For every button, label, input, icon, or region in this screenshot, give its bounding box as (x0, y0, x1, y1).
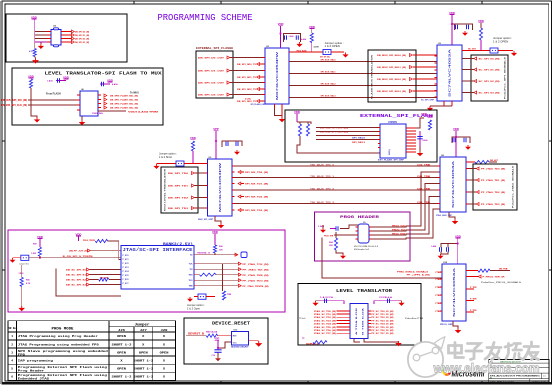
svg-text:www.elecfans.com: www.elecfans.com (433, 362, 540, 376)
svg-text:3: 3 (11, 351, 13, 354)
svg-text:DB_SPI_D3_OUT: DB_SPI_D3_OUT (198, 95, 225, 97)
wire (21, 286, 23, 306)
svg-text:A TDA ILDB: A TDA ILDB (355, 306, 358, 335)
jumper J5 (323, 50, 331, 55)
capacitor C61 C62 loop (441, 244, 458, 248)
svg-text:SPI_MX_TD3_(M): SPI_MX_TD3_(M) (245, 210, 268, 212)
svg-text:Embedded JTAG: Embedded JTAG (18, 376, 49, 380)
svg-text:P_TER: P_TER (470, 287, 477, 289)
capacitor C11 (56, 80, 66, 82)
svg-text:X: X (142, 335, 144, 338)
svg-text:DB_ICB_SPI_DO_(M): DB_ICB_SPI_DO_(M) (320, 128, 348, 130)
svg-text:SC_SPI_S3_(M): SC_SPI_S3_(M) (479, 93, 500, 95)
wire (13, 257, 21, 259)
resistor bottom (313, 341, 327, 344)
pins U10 right (194, 254, 197, 256)
IC U13 (350, 304, 368, 339)
wire U13 bottom (354, 339, 360, 342)
svg-text:PROG_GRP: PROG_GRP (440, 324, 454, 326)
ground (417, 151, 424, 156)
svg-text:PF_JTAG_TCK_(M): PF_JTAG_TCK_(M) (243, 263, 269, 266)
wire (91, 250, 122, 252)
svg-text:SPI_SEL1: SPI_SEL1 (352, 142, 366, 144)
wire (331, 51, 344, 53)
svg-text:DB_4K7: DB_4K7 (490, 159, 499, 162)
svg-text:JTAG Programming using Prog He: JTAG Programming using Prog Header (18, 334, 98, 338)
wire (222, 264, 224, 291)
svg-text:4-A04: 4-A04 (301, 38, 306, 41)
svg-text:SC74LVC4053A: SC74LVC4053A (453, 267, 456, 317)
svg-text:PF_JTAG_TD0_(M): PF_JTAG_TD0_(M) (481, 168, 505, 171)
wire (34, 42, 36, 49)
svg-text:4-A04: 4-A04 (112, 83, 118, 86)
wire (206, 296, 215, 298)
svg-text:SR No: SR No (8, 327, 16, 330)
svg-text:VDDI: VDDI (19, 273, 24, 275)
wire (217, 353, 219, 357)
wire (297, 122, 311, 124)
svg-text:DB_SC_SPI_S2: DB_SC_SPI_S2 (66, 280, 87, 282)
svg-text:PTB4: PTB4 (435, 302, 441, 305)
svg-text:Jumper option :: Jumper option : (159, 151, 177, 155)
wire (184, 163, 208, 165)
svg-text:DB_SPI_TD2: DB_SPI_TD2 (168, 198, 189, 200)
wire (469, 270, 479, 272)
svg-text:X: X (163, 367, 165, 370)
svg-text:JTAG_SC_TD1_(M): JTAG_SC_TD1_(M) (314, 313, 336, 316)
resistor R14 (191, 141, 194, 151)
svg-text:DB_SPI_SD3_TX: DB_SPI_SD3_TX (237, 101, 257, 103)
ground (438, 254, 444, 259)
watermark icon (408, 337, 445, 377)
svg-text:PF_JTAG_TRSTB_(M): PF_JTAG_TRSTB_(M) (243, 285, 269, 288)
svg-text:P_SC2: P_SC2 (123, 263, 129, 265)
wires U10 right + net labels (197, 263, 239, 265)
svg-text:DB_SPI3_FLASH_SEL_(M): DB_SPI3_FLASH_SEL_(M) (110, 107, 138, 110)
svg-text:2: 2 (11, 343, 13, 346)
IC U6 (80, 91, 98, 116)
svg-text:1-A04: 1-A04 (47, 80, 53, 83)
svg-text:SHORT 1-2: SHORT 1-2 (112, 375, 132, 378)
wire (28, 99, 77, 101)
svg-text:PF_JTAG_TD3_(M): PF_JTAG_TD3_(M) (481, 203, 505, 206)
wire (30, 88, 32, 105)
svg-text:IAP programming: IAP programming (18, 358, 53, 362)
pins U3 left (435, 55, 438, 57)
ground (427, 106, 433, 111)
svg-text:C01_TRB: C01_TRB (417, 176, 431, 178)
svg-text:6: 6 (11, 375, 13, 378)
svg-text:P_PROG_TER_0R: P_PROG_TER_0R (483, 277, 505, 279)
block box EXTERNAL_SPI_FLASH (285, 110, 437, 162)
connector box PolarFire_SPI_SIGNALS (471, 55, 508, 101)
resistor R21 (479, 28, 482, 40)
IC U8 (440, 157, 466, 212)
net label P_PROG (478, 275, 481, 278)
block box LEVEL TRANSLATOR-SPI FLASH TO MUX (12, 68, 163, 125)
connector box PolarFire_JTAG_SIGNALS (473, 164, 517, 210)
svg-text:PolarFire_PROG_SIGNALS: PolarFire_PROG_SIGNALS (481, 281, 522, 284)
wire (39, 256, 41, 258)
svg-text:MAX8211EUKT: MAX8211EUKT (231, 345, 249, 348)
resistor R5 (29, 79, 32, 88)
ground (218, 223, 225, 228)
svg-text:PROG_MODE: PROG_MODE (297, 50, 307, 52)
svg-text:DB_SPI_D2_(M): DB_SPI_D2_(M) (75, 39, 89, 41)
table PROG MODE jumpers (8, 321, 176, 380)
wire (218, 342, 232, 348)
capacitor C1 C2 loop (284, 34, 301, 43)
svg-text:JTAG_SC_TD4_(M): JTAG_SC_TD4_(M) (314, 323, 336, 326)
svg-text:4: 4 (11, 359, 13, 362)
svg-text:SC_SPI_S1_(M): SC_SPI_S1_(M) (479, 70, 500, 72)
ground (465, 145, 471, 150)
svg-text:LEVEL TRANSLATOR: LEVEL TRANSLATOR (336, 289, 392, 294)
title block (489, 359, 549, 383)
svg-text:OPEN: OPEN (117, 335, 126, 338)
wire U5 bottom (215, 216, 221, 223)
svg-text:PF_JTAG_TMS_(M): PF_JTAG_TMS_(M) (243, 274, 269, 277)
wire (249, 340, 259, 342)
IC U14 (442, 264, 466, 321)
resistor R71 (206, 334, 217, 337)
svg-text:10K: 10K (329, 245, 333, 247)
svg-text:VDDI2_5: VDDI2_5 (197, 253, 211, 255)
net labels U14 right stubs (466, 288, 474, 290)
testpoint TP1 (241, 252, 247, 258)
svg-text:PTB1: PTB1 (435, 279, 441, 281)
svg-text:MX74LVC4053PW: MX74LVC4053PW (219, 161, 222, 212)
svg-text:VDDI 4-A04 TRIM: VDDI 4-A04 TRIM (128, 110, 158, 113)
svg-text:DB_SPI_SD2_TX: DB_SPI_SD2_TX (237, 89, 257, 91)
ground (234, 150, 240, 155)
wire PROG header down-left (322, 238, 442, 279)
junction (280, 33, 282, 35)
pins U8 left (438, 165, 441, 167)
svg-text:OPEN: OPEN (160, 351, 169, 354)
svg-text:P_SC5: P_SC5 (123, 275, 129, 277)
resistor R61 (213, 245, 216, 253)
svg-text:PolarFire_JTAG_SIGNALS: PolarFire_JTAG_SIGNALS (512, 165, 515, 208)
block box DEVICE_RESET (184, 318, 268, 364)
svg-text:SPI_MX_TD1_(M): SPI_MX_TD1_(M) (245, 184, 268, 186)
IC U4 (51, 30, 61, 46)
wire (40, 42, 42, 44)
svg-text:1 & 2 OPEN: 1 & 2 OPEN (493, 40, 508, 44)
wire (214, 234, 216, 245)
svg-text:PTB5: PTB5 (435, 311, 441, 313)
svg-text:Prog Header: Prog Header (18, 368, 45, 372)
svg-text:DB_SC_SPI_S3: DB_SC_SPI_S3 (66, 285, 87, 287)
wire (498, 50, 513, 52)
pins U13 left (337, 310, 351, 312)
pins U5 right (232, 165, 235, 167)
svg-text:P_SC0: P_SC0 (123, 255, 129, 257)
pins U2 bottom (274, 104, 276, 108)
ground (455, 328, 462, 333)
svg-text:1 & 2 OPEN: 1 & 2 OPEN (325, 44, 340, 48)
svg-text:1.0: 1.0 (543, 375, 546, 377)
wire (457, 238, 459, 264)
svg-text:X: X (142, 343, 144, 346)
jumper J8 (198, 294, 206, 299)
svg-text:B TDB ILDA: B TDB ILDA (362, 306, 365, 335)
wire (28, 104, 77, 106)
pins U13 right (368, 310, 371, 312)
junction (451, 23, 453, 25)
resistor R41 (334, 238, 337, 250)
svg-text:DB_SPI_TD3: DB_SPI_TD3 (168, 208, 189, 210)
svg-text:P_TER: P_TER (470, 310, 477, 312)
wire (217, 341, 219, 350)
svg-text:DB_MUX_SPI_SEL0_(M): DB_MUX_SPI_SEL0_(M) (377, 55, 406, 57)
wire (157, 163, 177, 165)
pins U5 left (205, 163, 208, 165)
svg-text:PROG_TRB: PROG_TRB (324, 236, 333, 238)
svg-text:AT25DN: AT25DN (388, 121, 397, 124)
wire (214, 253, 216, 255)
pins U14 right (466, 270, 469, 272)
svg-text:DB_ICB_SPI_CLK_(M): DB_ICB_SPI_CLK_(M) (320, 132, 348, 134)
svg-text:SC74LVC4053A: SC74LVC4053A (449, 48, 452, 97)
resistor R31 R32 (298, 124, 301, 136)
ground (32, 58, 39, 64)
pins U14 left (440, 271, 443, 273)
svg-text:JTAG_SC_TD7_(M): JTAG_SC_TD7_(M) (314, 332, 336, 335)
wire (311, 28, 313, 33)
wires PROG HEADER to U8 (410, 172, 440, 226)
wires to flash IC (316, 127, 380, 129)
wire (489, 161, 497, 163)
svg-text:SC_SPI_S0_(M): SC_SPI_S0_(M) (479, 59, 500, 61)
svg-text:D_(M): D_(M) (245, 99, 251, 101)
pins U6 left (77, 94, 80, 96)
ground (153, 164, 159, 169)
svg-text:(M) PF_JUT_(M): (M) PF_JUT_(M) (69, 250, 88, 252)
svg-text:OPEN: OPEN (117, 367, 126, 370)
wire (336, 250, 343, 254)
pins U2 right (289, 51, 292, 53)
svg-text:4.7K: 4.7K (26, 282, 31, 285)
capacitor C52 (383, 300, 399, 302)
svg-text:DB_MUX_SPI_SEL2_(M): DB_MUX_SPI_SEL2_(M) (377, 79, 406, 81)
svg-text:X: X (120, 359, 122, 362)
block box PROG HEADER (315, 212, 411, 261)
svg-text:DB_SPI_D3_(M): DB_SPI_D3_(M) (75, 42, 89, 44)
wire vcc right (416, 118, 424, 128)
svg-text:PTB3: PTB3 (435, 295, 441, 297)
svg-text:P_SC1: P_SC1 (123, 259, 129, 261)
svg-text:MUX_SPI_GRP: MUX_SPI_GRP (198, 219, 214, 221)
svg-text:MUX LEVEL TRANSLATOR: MUX LEVEL TRANSLATOR (164, 168, 167, 211)
ground (462, 31, 468, 36)
svg-text:PF_SC_TD6_25_(M): PF_SC_TD6_25_(M) (371, 330, 393, 332)
svg-text:MX74LVC4053PW: MX74LVC4053PW (276, 50, 279, 100)
ground (340, 254, 346, 259)
svg-text:To MUX: To MUX (130, 92, 139, 95)
connector box MUX LEVEL TRANSLATOR (161, 167, 198, 213)
svg-text:P_SC6: P_SC6 (123, 279, 129, 281)
jumper J7 (21, 255, 29, 260)
watermark chinese text (449, 342, 539, 360)
wire (218, 335, 232, 337)
wire (78, 236, 80, 241)
IC U3 (437, 45, 462, 101)
svg-text:JTAG Programming using embedde: JTAG Programming using embedded FP5 (18, 342, 99, 346)
junction (455, 136, 457, 138)
ground (187, 297, 193, 302)
IC U15 (232, 332, 249, 346)
svg-text:P_SC3: P_SC3 (123, 267, 129, 269)
wire (296, 114, 298, 122)
ground (398, 301, 404, 306)
svg-text:PF_SC_TD7_25_(M): PF_SC_TD7_25_(M) (371, 333, 393, 335)
svg-text:C00_TRB: C00_TRB (417, 164, 431, 166)
svg-text:DEVICE_RESET: DEVICE_RESET (212, 321, 250, 327)
pins U7 right (406, 127, 408, 129)
svg-text:P_SC4: P_SC4 (123, 270, 130, 273)
svg-text:DB_SPI_D2_OUT: DB_SPI_D2_OUT (198, 83, 225, 85)
pins J9 right (369, 226, 372, 228)
svg-text:JTAG_SC_TD2_(M): JTAG_SC_TD2_(M) (314, 316, 336, 319)
svg-text:4N Header 5x2: 4N Header 5x2 (354, 248, 370, 251)
svg-text:PTB5_SSNC&_SIGNALS: PTB5_SSNC&_SIGNALS (397, 270, 429, 273)
svg-text:DB_MUX_SPI_SEL3_(M): DB_MUX_SPI_SEL3_(M) (377, 91, 406, 93)
block box LEVEL TRANSLATOR bottom (298, 284, 421, 346)
svg-text:JTAG_SC_TD3_(M): JTAG_SC_TD3_(M) (314, 319, 336, 322)
svg-text:W25Q: W25Q (389, 149, 391, 155)
wire (29, 257, 121, 259)
wire (39, 239, 41, 248)
ground (320, 228, 326, 233)
svg-text:JTAG_SC_TD0_(M): JTAG_SC_TD0_(M) (314, 310, 336, 313)
wire (480, 23, 482, 28)
svg-text:PROG HEADER: PROG HEADER (340, 216, 380, 220)
svg-text:TRI_MUX_TRI_2: TRI_MUX_TRI_2 (310, 188, 335, 190)
pins U4 left (47, 31, 51, 33)
svg-text:J27: J27 (140, 329, 147, 332)
pins U8 right (466, 161, 469, 163)
junction (217, 347, 219, 349)
capacitor C12 (100, 83, 110, 85)
svg-text:TP 4x4: TP 4x4 (299, 318, 306, 320)
svg-text:VCC: VCC (233, 342, 238, 344)
svg-text:EXT_FLASH_SPI_GRP: EXT_FLASH_SPI_GRP (378, 159, 405, 162)
wire (31, 105, 37, 118)
wire (186, 335, 206, 337)
svg-text:PolarFire_SPI_SIGNALS: PolarFire_SPI_SIGNALS (504, 56, 507, 99)
svg-text:SPI_SEL0: SPI_SEL0 (352, 138, 366, 140)
svg-text:A3: A3 (490, 376, 492, 379)
svg-text:SPI_SCK_SEL3: SPI_SCK_SEL3 (321, 96, 337, 98)
svg-text:JTAG_SC_TD6_(M): JTAG_SC_TD6_(M) (314, 329, 336, 332)
wires flash0 to U2 (230, 57, 265, 59)
wire L to box (56, 269, 121, 296)
svg-text:DB_TRB: DB_TRB (499, 268, 508, 270)
svg-text:TRI_MUX_TRI_1: TRI_MUX_TRI_1 (310, 176, 335, 178)
wire (399, 300, 402, 302)
svg-text:PROGRAMMING SCHEME: PROGRAMMING SCHEME (158, 13, 253, 23)
svg-text:FP5: FP5 (18, 352, 25, 356)
svg-text:Jumper option :: Jumper option : (187, 303, 205, 307)
wire bus U5 to U8 (235, 165, 441, 167)
svg-text:SHORT 1-2: SHORT 1-2 (133, 359, 153, 362)
net labels right of U4 (72, 30, 75, 33)
svg-text:X: X (163, 343, 165, 346)
svg-text:DB_SC_SPI_S0: DB_SC_SPI_S0 (66, 270, 87, 272)
capacitor C51 (319, 300, 334, 302)
pins U2 left (263, 57, 266, 59)
svg-text:4.09K: 4.09K (314, 46, 320, 49)
ground (255, 341, 262, 347)
connector box MUX_SPI_TO_FLASH (368, 50, 416, 102)
svg-text:DB_SPI0_FLASH_SEL_(M): DB_SPI0_FLASH_SEL_(M) (110, 95, 138, 98)
svg-text:SPI_MX_TD0_(M): SPI_MX_TD0_(M) (245, 172, 268, 174)
resistor R62 on TMS row (200, 273, 217, 276)
wire (334, 234, 355, 236)
pins U3 bottom (443, 101, 445, 106)
svg-text:DB_SPI_D1_(M): DB_SPI_D1_(M) (75, 35, 89, 37)
svg-text:DB_SPI_SD1_TX: DB_SPI_SD1_TX (237, 77, 257, 79)
svg-text:VCCB 4-A: VCCB 4-A (379, 296, 393, 299)
svg-text:TRI_MUX_TRI_0: TRI_MUX_TRI_0 (310, 164, 335, 166)
wire (108, 241, 121, 260)
svg-text:Jumper: Jumper (135, 323, 150, 328)
svg-text:DB_SPI_D0_(M): DB_SPI_D0_(M) (75, 32, 89, 34)
svg-text:4N-TCK-2MM-D5-G-LF-4: 4N-TCK-2MM-D5-G-LF-4 (354, 246, 379, 248)
wire (316, 300, 320, 302)
wire (451, 14, 453, 45)
wire (364, 339, 399, 342)
svg-text:TCK: TCK (189, 264, 194, 266)
pin U2 top (280, 44, 282, 48)
ground (215, 357, 221, 362)
svg-text:OPEN: OPEN (139, 351, 148, 354)
jumper J4 (176, 161, 184, 166)
svg-text:PF_SC_TD2_25_(M): PF_SC_TD2_25_(M) (371, 317, 393, 319)
wire (455, 131, 457, 157)
svg-text:JTAG/SC-SPI INTERFACE: JTAG/SC-SPI INTERFACE (123, 248, 194, 253)
svg-text:DB_SPI_D1_OUT: DB_SPI_D1_OUT (198, 71, 225, 73)
svg-text:TDI: TDI (189, 269, 193, 271)
svg-text:DB_SPI_TD1: DB_SPI_TD1 (168, 186, 189, 188)
svg-text:C02_TRB: C02_TRB (417, 188, 431, 190)
svg-text:SPI_SCK_SEL1: SPI_SCK_SEL1 (321, 72, 337, 74)
pins U4 right (61, 31, 72, 33)
capacitor C5 C6 loop (452, 23, 455, 25)
wire (215, 131, 217, 159)
resistor RN1 (99, 278, 109, 281)
junction (457, 243, 459, 245)
svg-text:SHORT 1-2: SHORT 1-2 (133, 375, 153, 378)
svg-text:TRB: TRB (189, 286, 194, 288)
ground (452, 219, 459, 224)
svg-text:X: X (163, 335, 165, 338)
svg-text:JTAG_MUX_GRP: JTAG_MUX_GRP (436, 214, 453, 217)
svg-text:1 & 2 Open: 1 & 2 Open (187, 306, 201, 310)
connector J9 header (358, 224, 369, 243)
wires J9 to right (372, 226, 410, 227)
svg-text:DB_SPI2_FLASH_SEL_(M): DB_SPI2_FLASH_SEL_(M) (110, 103, 138, 106)
ground (511, 51, 517, 56)
svg-text:FLASH MUX TRANSLATOR: FLASH MUX TRANSLATOR (371, 54, 374, 99)
resistor R01 (95, 239, 107, 242)
resistor R24 (469, 161, 476, 163)
svg-text:1-A VCCA: 1-A VCCA (320, 296, 334, 299)
wire (21, 265, 23, 277)
svg-text:PROG_TDI: PROG_TDI (392, 230, 405, 232)
wire U8 bottom (449, 212, 455, 219)
